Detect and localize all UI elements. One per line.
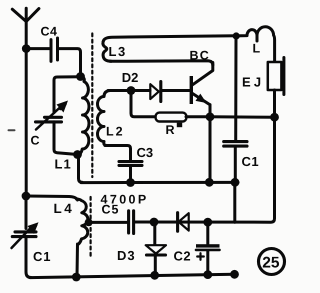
wire L2 top to D2 node bbox=[108, 89, 131, 92]
svg-text:L: L bbox=[253, 42, 261, 56]
inductor L bbox=[236, 27, 275, 62]
node: C2 on bottom rail bbox=[203, 270, 212, 279]
svg-text:C: C bbox=[31, 134, 40, 148]
bottom rail wire bbox=[30, 274, 235, 277]
node: top rail junction bbox=[233, 32, 240, 39]
variable capacitor C1 arrow bbox=[12, 222, 39, 248]
capacitor C3 bbox=[119, 162, 142, 166]
earphone EJ body bbox=[268, 62, 282, 90]
svg-text:L1: L1 bbox=[55, 157, 72, 172]
wire variable capacitor C down to tank bottom bbox=[54, 122, 78, 155]
wire mid rail down to detector rail bbox=[233, 182, 236, 222]
wire L4 tap to C5 bbox=[89, 221, 127, 224]
wire D2 node down to R bbox=[131, 91, 155, 117]
figure number 25 circle bbox=[259, 249, 285, 275]
capacitor C5 bbox=[129, 211, 134, 234]
variable capacitor C plates bbox=[36, 117, 62, 122]
node: tank bottom junction bbox=[73, 150, 82, 159]
transistor BC emitter bbox=[193, 94, 209, 105]
transistor BC collector bbox=[193, 63, 213, 85]
wire emitter down through rail to mid rail bbox=[209, 105, 212, 183]
label R bbox=[166, 123, 183, 137]
variable capacitor C arrow bbox=[36, 101, 68, 130]
node: EJ / right rail junction bbox=[270, 113, 279, 122]
wire from top node down to C1 bbox=[234, 36, 237, 141]
diode D2 bbox=[134, 82, 190, 102]
wire right rail bbox=[210, 115, 275, 119]
svg-text:C1: C1 bbox=[33, 249, 51, 264]
wire L4 bottom to bottom rail node bbox=[76, 244, 80, 277]
wire left vertical from node down to lower tank node bbox=[25, 49, 28, 196]
node: lower tank top junction bbox=[22, 192, 31, 201]
antenna bbox=[12, 8, 39, 21]
resistor R bbox=[156, 113, 187, 122]
inductor L3 hairpin top line bbox=[103, 36, 236, 42]
node: D3 top junction bbox=[150, 218, 159, 227]
svg-text:R: R bbox=[166, 123, 175, 137]
wire variable capacitor C1 down to bottom rail bbox=[26, 237, 31, 278]
wire C1 down to mid rail bbox=[234, 147, 237, 183]
svg-text:D3: D3 bbox=[117, 248, 136, 263]
node: emitter / R rail junction bbox=[206, 112, 215, 121]
svg-text:L2: L2 bbox=[106, 125, 125, 139]
node: emitter on mid rail bbox=[205, 178, 214, 187]
wire from C4 down to tank top node bbox=[58, 49, 81, 77]
inductor L2 bbox=[98, 91, 111, 146]
wire C3 down to mid rail node bbox=[129, 166, 132, 183]
diode D1 bbox=[178, 213, 189, 232]
earphone EJ side bar bbox=[282, 58, 285, 95]
inductor L4 bbox=[77, 199, 88, 245]
svg-text:EJ: EJ bbox=[242, 75, 264, 90]
svg-text:D2: D2 bbox=[122, 70, 139, 85]
inductor L1 bbox=[78, 77, 90, 155]
wire from node to C4 bbox=[26, 47, 50, 50]
node: tank top junction bbox=[76, 72, 85, 81]
svg-text:C3: C3 bbox=[137, 145, 154, 160]
svg-text:C1: C1 bbox=[242, 154, 260, 169]
variable capacitor C1 plates bbox=[12, 232, 36, 237]
capacitor C2 bbox=[196, 222, 220, 275]
transistor BC base bar bbox=[190, 76, 193, 104]
label C2 plus sign bbox=[197, 253, 204, 260]
wire left branch down to variable capacitor C1 bbox=[25, 196, 28, 229]
transformer core lower dashed line bbox=[89, 197, 91, 257]
mid rail wire bbox=[81, 181, 238, 184]
node: L4 tap bbox=[85, 219, 93, 227]
capacitor C1 right bbox=[224, 142, 247, 147]
node: D2 / base bias junction bbox=[127, 86, 136, 95]
svg-text:C4: C4 bbox=[41, 25, 58, 39]
diode D3 bbox=[146, 222, 166, 275]
capacitor C4 bbox=[51, 38, 58, 61]
node: C1 on mid rail bbox=[231, 178, 240, 187]
inductor L3 hairpin bottom line to collector bbox=[110, 61, 213, 65]
svg-text:25: 25 bbox=[262, 254, 280, 271]
wire L2 bottom to C3 bbox=[105, 146, 131, 161]
node: D3 on bottom rail bbox=[150, 271, 159, 280]
wire R to emitter node bbox=[186, 115, 210, 118]
stray scan mark bbox=[9, 129, 15, 131]
wire EJ node down to detector rail corner bbox=[135, 117, 275, 222]
node: bottom rail right end bbox=[230, 270, 239, 279]
svg-text:C5: C5 bbox=[102, 203, 120, 217]
node: C3 on mid rail bbox=[126, 178, 135, 187]
wire tank top bbox=[54, 77, 81, 113]
svg-text:C2: C2 bbox=[174, 249, 192, 264]
node: antenna / C4 junction bbox=[22, 44, 31, 53]
transformer core upper dashed line bbox=[91, 34, 93, 178]
inductor L3 left end loops bbox=[103, 42, 111, 62]
svg-text:L3: L3 bbox=[109, 44, 127, 59]
node: L4 on bottom rail bbox=[72, 273, 81, 282]
wire EJ down to right rail node bbox=[273, 90, 276, 117]
wire tank bottom node down to mid rail bbox=[79, 155, 83, 183]
wire antenna lead down to node bbox=[25, 20, 28, 49]
wire lower tank top bbox=[26, 196, 78, 200]
node: C2 top junction bbox=[203, 218, 212, 227]
svg-text:L4: L4 bbox=[54, 201, 75, 216]
